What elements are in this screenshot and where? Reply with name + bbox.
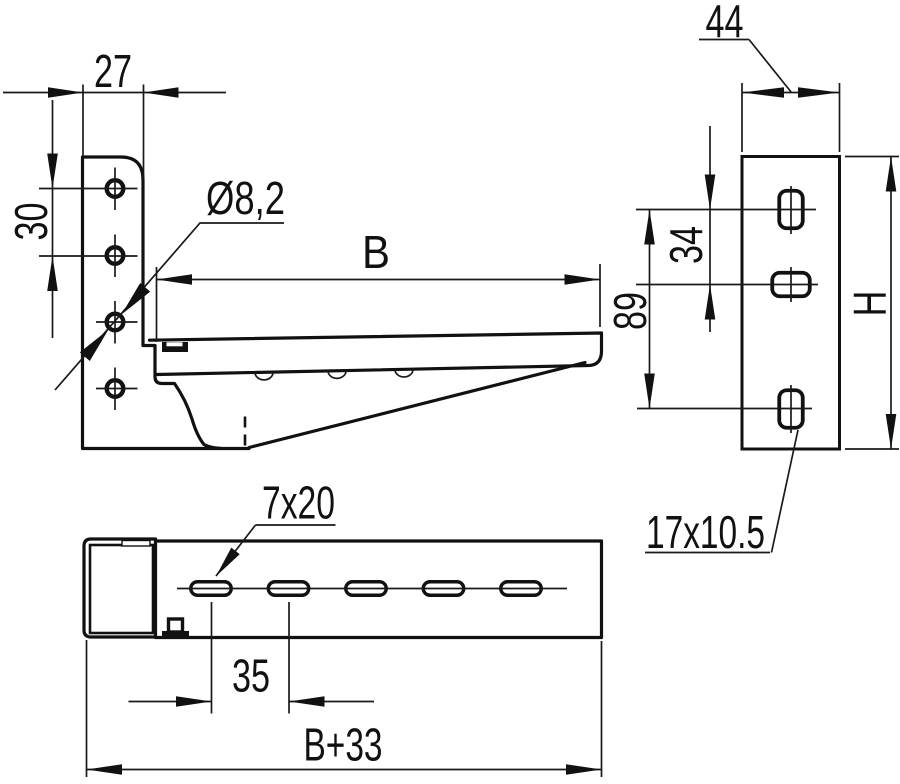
svg-text:34: 34 bbox=[660, 226, 712, 264]
svg-text:7x20: 7x20 bbox=[262, 477, 335, 529]
svg-text:27: 27 bbox=[94, 45, 132, 97]
svg-text:44: 44 bbox=[706, 0, 744, 47]
svg-text:Ø8,2: Ø8,2 bbox=[206, 172, 285, 224]
svg-text:H: H bbox=[844, 291, 896, 317]
svg-text:17x10.5: 17x10.5 bbox=[646, 506, 765, 558]
svg-text:89: 89 bbox=[604, 292, 656, 330]
svg-text:B+33: B+33 bbox=[304, 719, 383, 771]
svg-text:30: 30 bbox=[5, 203, 57, 241]
svg-text:35: 35 bbox=[232, 650, 270, 702]
svg-text:B: B bbox=[362, 226, 390, 278]
